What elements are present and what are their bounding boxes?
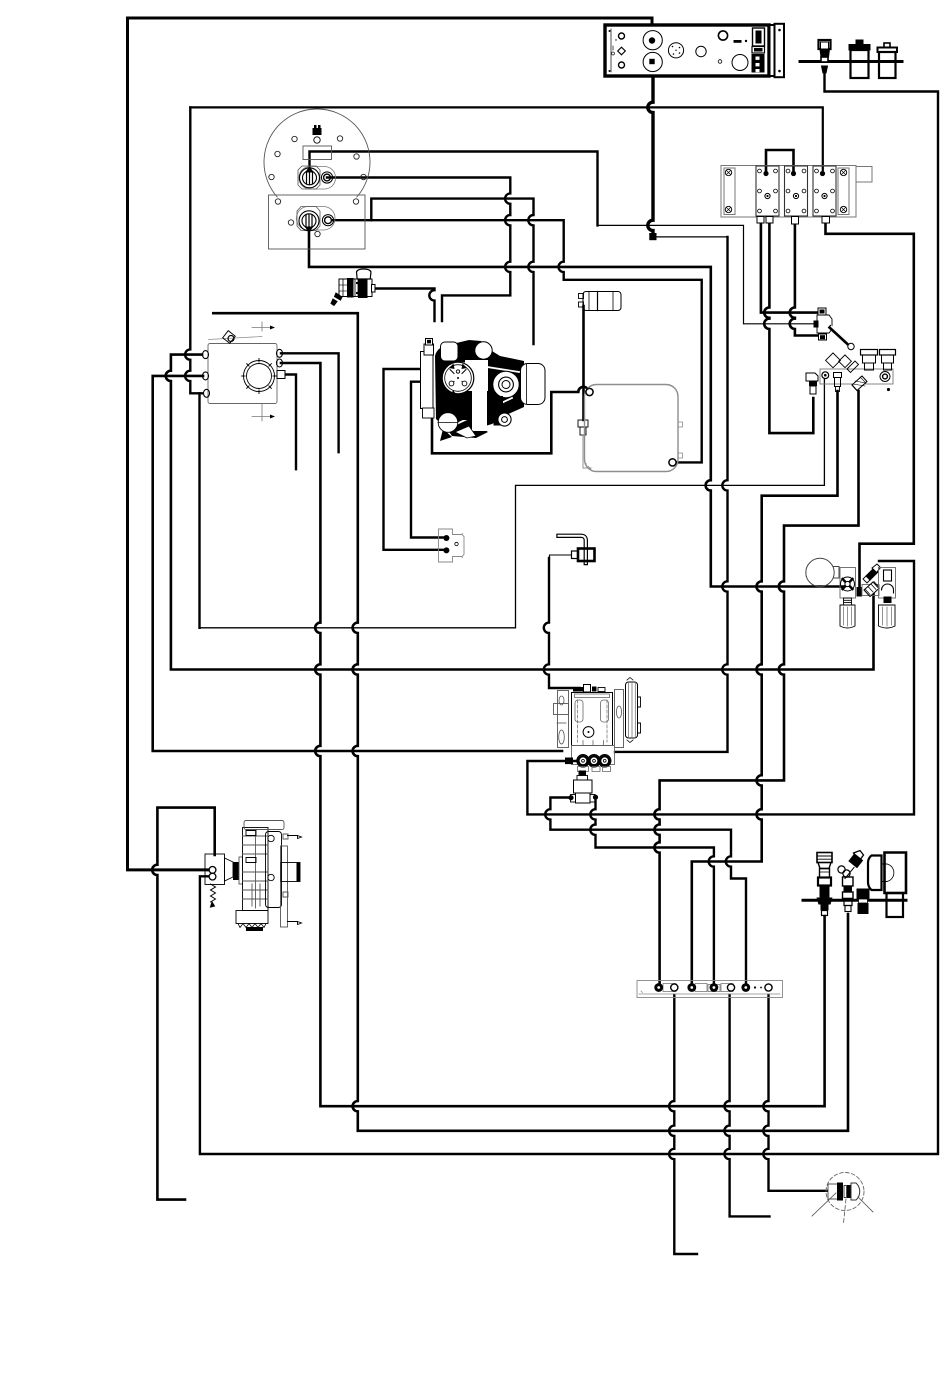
governor unit 1 [840,568,856,629]
tank inlet port [586,388,593,395]
bulkhead fitting bar [637,981,783,998]
wire dryer-bar fitting2 to bulkhead port2 [692,391,838,984]
engine with compressor [421,339,546,442]
heater control valve box [203,322,286,421]
dryer drain valve 1 [817,853,833,916]
firewall lower fitting [297,207,336,233]
heater water valve assembly [554,678,641,804]
wire box port1-right open line [281,353,339,452]
tank drain fitting [578,420,591,468]
heater hose screw clamp [211,884,216,907]
wire drain valve to right border to heater port2 [200,71,938,1154]
firewall bolt holes [269,136,366,237]
hose coupling bracket [550,536,595,563]
tee junction fitting [814,308,855,350]
bar elbow fitting left [806,373,818,394]
alcohol reservoir 1 [849,40,870,78]
wire bulkhead bottom2 open stub [724,995,769,1216]
wire box portB to valve-assembly left port [153,376,562,751]
wire manifold U jumper [766,150,794,174]
governor unit 2 [879,568,896,629]
wire engine to pressure switch top contact [411,382,443,538]
heater port 1 [209,867,216,874]
drain cock valve [819,40,831,73]
dryer mount bar [820,369,893,384]
governor diag valve [864,582,879,597]
heater blower assembly [205,821,302,932]
wire manifold plate3 bottom to governor elbow [826,219,914,589]
wire box diag fitting long loop to dryer valve2 [213,313,848,1131]
dryer mount line [803,899,906,902]
wire panel drop thin link [655,236,728,238]
bar check valve 1 [861,350,878,371]
bar diamond fittings [826,353,859,373]
dryer purge valve 2 [838,851,864,912]
wire hose coupling to valve-assembly top [544,558,580,688]
wire solenoid valve to engine [374,289,435,322]
wire tank top cylinder drop [582,306,585,420]
wire box diag stem [213,312,232,314]
wire firewall lower port to air tank [333,220,702,462]
wire panel valve down (thick drop) [648,63,653,234]
firewall top vent valve [313,125,322,143]
alcohol reservoir 2 [878,43,898,78]
instrument control panel [605,24,784,77]
wire firewall gland thin continuation to tee middle [598,225,819,323]
accumulator sphere [806,558,839,586]
wire engine to pressure switch bottom contact [384,369,444,550]
wire firewall upper gland line [310,152,598,226]
dryer check valve black [857,889,870,915]
wire box port3-right open line [283,375,296,470]
wire heater supply loop [152,808,215,1200]
wire firewall lower port branch to engine [371,199,533,344]
pressure switch block [439,529,465,562]
bar right port [880,372,890,382]
firewall upper fitting [298,166,336,189]
wire bottom-block left port to bulkhead port4 [545,798,746,985]
wire manifold plate2 to tee bottom [790,219,818,336]
solenoid valve [331,269,375,306]
wire firewall lower gland to air governor [309,230,844,587]
wire bulkhead bottom1 open stub [669,995,697,1254]
bar fitting 2 [834,373,842,392]
bar port bolt [822,372,829,379]
dryer body [868,853,906,918]
wire panel link down to control valve right port [615,237,728,752]
wire panel gauge to left border to heater inlet [128,18,653,870]
governor coupling [862,585,879,596]
wire manifold plate1b to dryer-bar elbow [764,219,813,433]
wire portC riser [185,107,202,393]
firewall bulkhead plate [264,109,370,249]
wire bulkhead bottom3 to test gauge [763,995,827,1191]
manifold valve plate 2 [785,166,808,216]
tank outlet port [669,459,676,466]
wire engine loop to tank port [432,387,589,454]
wire portC tee thin run to dryer-bar port [200,377,825,628]
intake filter cylinder [579,292,622,311]
wire box portA to purge valve riser [166,355,874,670]
solenoid manifold block [721,166,872,218]
wire box port2-right long loop to dryer valve1 [281,363,825,1106]
governor center elbow [857,587,863,597]
air reservoir tank [585,385,683,472]
governor diag top fitting [863,564,881,583]
bar diagonal drain fitting [852,376,867,391]
wire portC tee down to air bar port (thick leg) [198,393,200,628]
manifold top ports [763,171,768,176]
wire firewall upper port to engine [327,178,510,322]
wire governor diag fitting to valve knob [527,561,914,814]
test port coupling [812,1173,873,1224]
wire dryer-bar diag fitting to bulkhead port1 [654,391,858,984]
manifold valve plate 3 [813,166,836,216]
panel drop terminal [649,233,656,240]
wire manifold plate1a to tee top [761,219,818,313]
wire bottom-block right port to bulkhead port3 [590,798,714,984]
heater port 2 [209,873,216,880]
manifold valve plate 1 [756,166,779,216]
mount bar top right [800,60,902,63]
bulkhead ports [654,983,663,992]
wire box portC to manifold plate3 top [190,107,823,170]
manifold bottom port stubs [757,217,830,225]
bar check valve 2 [880,350,896,371]
